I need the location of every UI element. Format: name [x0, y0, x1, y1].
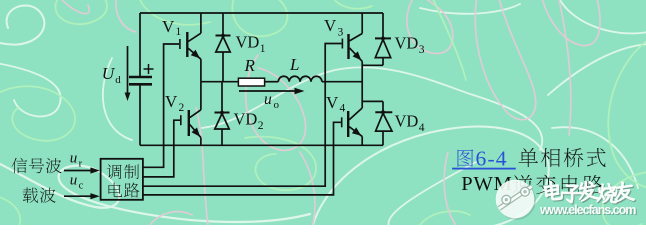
svg-text:V: V	[326, 93, 339, 112]
svg-text:2: 2	[258, 120, 264, 132]
svg-text:3: 3	[419, 44, 425, 56]
svg-text:4: 4	[419, 122, 425, 134]
svg-text:L: L	[289, 55, 299, 74]
svg-text:u: u	[70, 173, 78, 189]
svg-text:U: U	[102, 64, 116, 83]
svg-text:VD: VD	[234, 110, 258, 129]
svg-text:R: R	[244, 56, 256, 75]
svg-text:V: V	[162, 17, 175, 36]
svg-text:VD: VD	[395, 112, 419, 131]
svg-text:V: V	[324, 16, 337, 35]
svg-text:1: 1	[176, 26, 182, 38]
svg-text:1: 1	[260, 43, 266, 55]
svg-text:o: o	[274, 99, 280, 111]
svg-text:u: u	[70, 151, 78, 167]
svg-text:r: r	[79, 158, 83, 169]
svg-text:4: 4	[340, 103, 346, 115]
svg-text:3: 3	[338, 27, 344, 39]
svg-text:V: V	[165, 92, 178, 111]
svg-text:VD: VD	[236, 33, 260, 52]
svg-text:VD: VD	[395, 34, 419, 53]
svg-text:6-4: 6-4	[476, 146, 508, 170]
svg-text:d: d	[115, 74, 121, 86]
svg-text:u: u	[264, 91, 272, 108]
svg-text:www.elecfans.com: www.elecfans.com	[539, 203, 636, 217]
svg-text:2: 2	[179, 102, 185, 114]
svg-text:c: c	[79, 181, 84, 192]
